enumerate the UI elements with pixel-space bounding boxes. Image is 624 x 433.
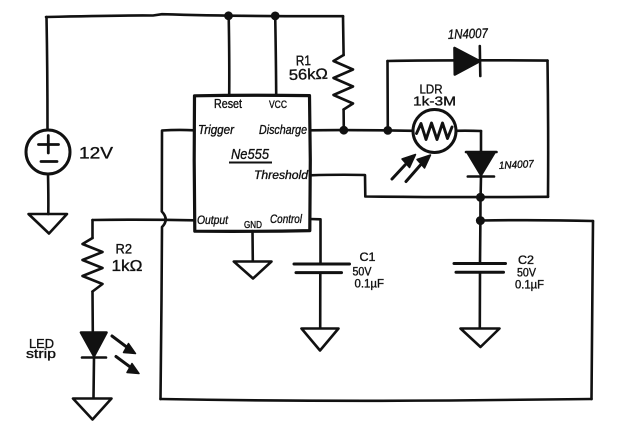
photoresistor LDR: [413, 110, 456, 153]
wire trigger lead with hop over output wire: [161, 130, 195, 399]
node junction D2-threshold: [476, 193, 485, 202]
node junction C2-rightrail: [476, 216, 485, 225]
wire 12V bottom lead: [47, 174, 50, 214]
svg-text:0.1µF: 0.1µF: [515, 280, 544, 292]
resistor R1 56k: [342, 16, 345, 55]
svg-text:1k-3M: 1k-3M: [413, 94, 456, 109]
wire right rail top: [480, 219, 593, 222]
wire D1 anode lead: [386, 61, 389, 130]
ground GND1 under 12V: [29, 214, 68, 234]
svg-text:Discharge: Discharge: [259, 123, 307, 137]
wire reset pin lead: [227, 16, 230, 96]
capacitor C1: [294, 263, 350, 266]
wire LDR right lead: [456, 129, 481, 132]
svg-text:C1: C1: [360, 252, 376, 264]
voltage source V1 12V: [26, 130, 70, 174]
svg-text:Control: Control: [270, 212, 302, 226]
LED D3: [81, 333, 107, 357]
node junction D1-discharge: [383, 126, 392, 135]
ground GND2 under IC: [234, 262, 272, 279]
arrow LED arrow 1: [112, 336, 126, 347]
svg-text:0.1µF: 0.1µF: [355, 279, 385, 291]
wire right rail vertical: [592, 221, 594, 399]
ground GND5 under LED: [73, 399, 112, 420]
diode D2 1N4007: [480, 131, 483, 152]
node junction R1-discharge: [339, 126, 348, 135]
svg-text:strip: strip: [26, 347, 56, 361]
wire GND pin lead: [251, 231, 254, 261]
arrow light arrow 1: [392, 165, 405, 179]
wire control pin to C1: [310, 219, 321, 263]
resistor R2 1k: [91, 220, 94, 238]
op-amp U1 NE555 body: [194, 95, 310, 231]
svg-text:1N4007: 1N4007: [448, 26, 489, 42]
node junction reset-rail: [224, 11, 233, 20]
svg-text:R2: R2: [116, 242, 133, 257]
wire D1 top net: [388, 59, 548, 62]
wire top rail V+: [46, 14, 343, 17]
wire D2 junction down: [479, 197, 482, 220]
svg-text:Trigger: Trigger: [198, 123, 235, 137]
ground GND3 under C1: [302, 329, 339, 351]
wire 12V top lead: [47, 17, 48, 130]
node junction vcc-rail: [271, 12, 280, 21]
svg-text:GND: GND: [244, 220, 262, 231]
svg-text:VCC: VCC: [269, 99, 287, 111]
svg-text:Threshold: Threshold: [254, 170, 309, 182]
svg-text:50V: 50V: [353, 267, 372, 279]
diode D1 1N4007: [455, 48, 480, 75]
capacitor C2: [479, 221, 482, 263]
svg-text:50V: 50V: [517, 268, 536, 280]
ground GND4 under C2: [461, 329, 500, 348]
svg-text:56kΩ: 56kΩ: [289, 66, 329, 84]
svg-text:Output: Output: [197, 213, 229, 227]
svg-text:1kΩ: 1kΩ: [112, 258, 143, 275]
arrow LED arrow 2: [116, 357, 130, 367]
wire bottom rail: [161, 399, 592, 401]
svg-text:12V: 12V: [79, 144, 114, 163]
wire output net to R2: [93, 218, 195, 221]
arrow light arrow 2: [406, 166, 420, 182]
wire D1 cathode to threshold net: [546, 61, 549, 197]
wire discharge net to LDR: [310, 129, 413, 132]
svg-text:1N4007: 1N4007: [499, 158, 536, 172]
svg-text:Reset: Reset: [214, 97, 242, 111]
svg-text:C2: C2: [518, 255, 534, 267]
wire threshold net: [310, 175, 548, 197]
wire vcc pin lead: [275, 16, 276, 96]
svg-text:Ne555: Ne555: [231, 146, 270, 163]
